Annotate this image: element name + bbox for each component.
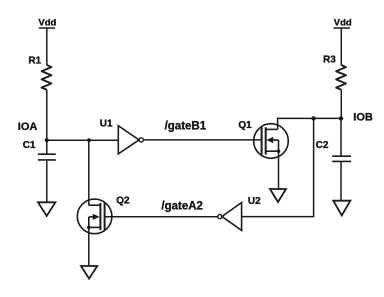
capacitor C2: [316, 140, 351, 161]
resistor R1: [28, 56, 51, 90]
wire feedback IOB to U2 input: [242, 118, 314, 216]
wire Q2 source: [88, 227, 90, 266]
ground: [333, 201, 350, 216]
svg-text:C2: C2: [316, 140, 329, 151]
node IOA: [18, 121, 49, 142]
svg-text:Vdd: Vdd: [334, 17, 352, 28]
svg-text:U1: U1: [100, 119, 113, 130]
wire Q2 drain: [88, 140, 90, 205]
node branch to Q2: [87, 138, 91, 142]
wire: [340, 28, 342, 65]
wire: [46, 28, 48, 65]
resistor R3: [323, 55, 346, 90]
wire /gateA2: [105, 201, 218, 217]
svg-text:IOB: IOB: [353, 112, 373, 124]
svg-text:Q1: Q1: [238, 120, 252, 131]
wire: [340, 90, 342, 119]
svg-text:Q2: Q2: [116, 196, 130, 207]
capacitor C1: [23, 140, 56, 160]
node IOB: [339, 112, 373, 124]
wire IOA to U1: [47, 139, 119, 141]
power Vdd right: [334, 17, 352, 28]
wire: [46, 160, 48, 202]
ground: [38, 202, 55, 216]
wire /gateB1: [143, 120, 261, 140]
wire Q1 source: [278, 151, 280, 189]
ground: [81, 266, 97, 279]
svg-text:/gateB1: /gateB1: [165, 120, 207, 132]
wire: [46, 140, 48, 154]
svg-text:/gateA2: /gateA2: [161, 201, 203, 213]
buffer U1: [100, 119, 143, 154]
ground: [270, 189, 286, 202]
power Vdd left: [38, 17, 56, 28]
wire: [46, 90, 48, 141]
svg-text:R1: R1: [28, 56, 41, 67]
svg-text:Vdd: Vdd: [38, 17, 56, 28]
svg-text:R3: R3: [323, 55, 336, 66]
svg-text:U2: U2: [248, 196, 261, 207]
svg-text:C1: C1: [23, 140, 36, 151]
transistor Q2: [77, 196, 130, 234]
inverter U2: [218, 196, 261, 230]
wire: [340, 118, 342, 156]
wire: [340, 161, 342, 200]
transistor Q1: [238, 120, 288, 158]
wire Q1 drain: [278, 118, 341, 129]
node: [311, 116, 315, 120]
svg-text:IOA: IOA: [18, 121, 38, 133]
